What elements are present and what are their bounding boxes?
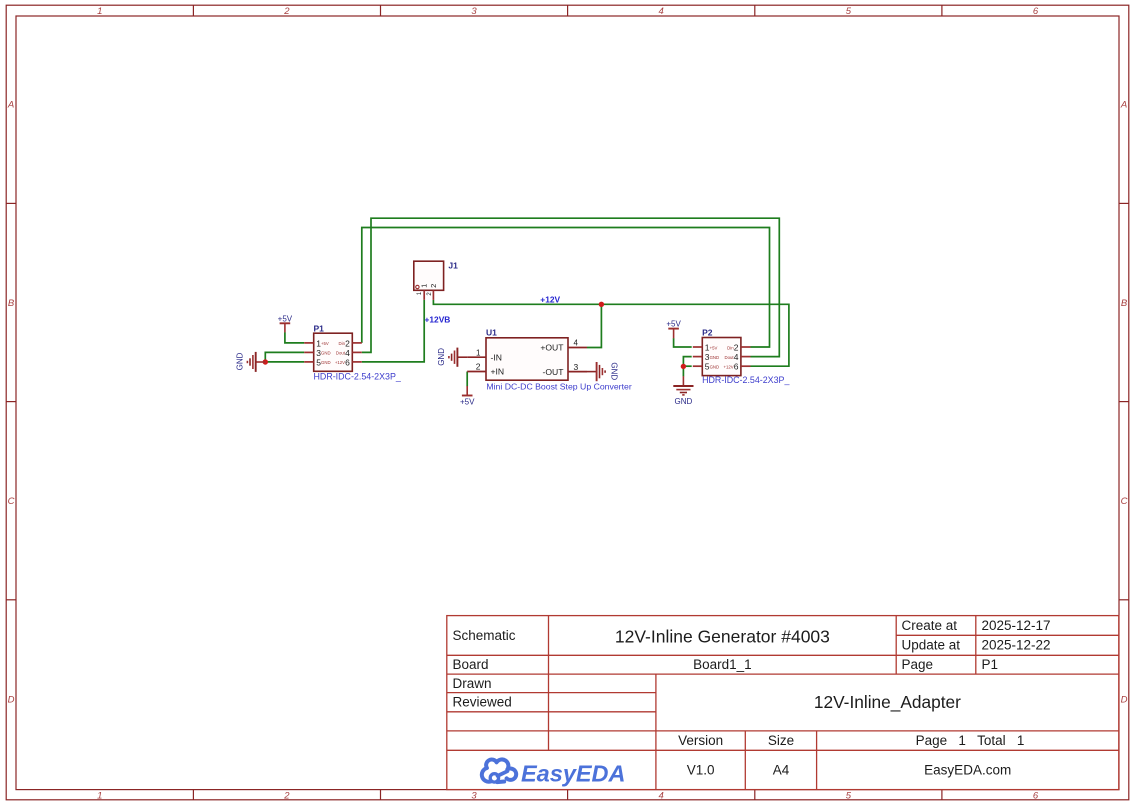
P2 pin 4 xyxy=(725,352,751,362)
svg-text:+5V: +5V xyxy=(460,397,475,406)
svg-text:B: B xyxy=(8,298,15,309)
P1 pin 1 xyxy=(304,338,329,348)
wire P1 pin3 to ground node xyxy=(265,352,304,362)
wire net Din: P1 pin2 to P2 pin2 xyxy=(362,228,770,348)
wire U1 pin2 to +5V xyxy=(466,372,468,387)
svg-text:HDR-IDC-2.54-2X3P_: HDR-IDC-2.54-2X3P_ xyxy=(702,375,790,385)
P1 pin 6 xyxy=(335,357,362,367)
svg-text:Board: Board xyxy=(453,657,489,672)
connector P1 xyxy=(304,323,402,381)
svg-text:4: 4 xyxy=(659,6,664,17)
svg-text:Size: Size xyxy=(768,733,794,748)
TITLE BLOCK xyxy=(447,616,1119,790)
svg-text:GND: GND xyxy=(321,360,331,365)
svg-text:Schematic: Schematic xyxy=(453,628,516,643)
svg-text:Reviewed: Reviewed xyxy=(453,695,512,710)
svg-text:EasyEDA.com: EasyEDA.com xyxy=(924,762,1011,777)
svg-text:+12V: +12V xyxy=(540,295,560,305)
svg-text:6: 6 xyxy=(1033,791,1039,802)
svg-text:2: 2 xyxy=(283,6,290,17)
svg-text:12V-Inline_Adapter: 12V-Inline_Adapter xyxy=(814,692,961,712)
wire P1 pin1 to +5V xyxy=(285,332,304,343)
svg-text:D: D xyxy=(8,694,15,705)
svg-text:4: 4 xyxy=(345,348,350,358)
svg-text:2: 2 xyxy=(345,338,350,348)
J1 pin-1 marker circle xyxy=(416,285,419,288)
svg-text:GND: GND xyxy=(236,352,245,370)
module U1 xyxy=(467,328,632,392)
svg-text:Page 1 Total 1: Page 1 Total 1 xyxy=(916,733,1025,748)
svg-text:+12V: +12V xyxy=(335,360,345,365)
svg-text:A: A xyxy=(7,100,14,111)
svg-text:U1: U1 xyxy=(486,328,497,338)
P2 pin 3 xyxy=(693,352,719,362)
wire P1 pin5 to ground node xyxy=(265,361,304,363)
P2 pin 1 xyxy=(693,343,718,353)
svg-text:+12VB: +12VB xyxy=(425,314,451,324)
svg-text:B: B xyxy=(1121,298,1128,309)
svg-text:Create at: Create at xyxy=(902,618,958,633)
svg-text:1: 1 xyxy=(97,6,102,17)
svg-text:Update at: Update at xyxy=(902,638,961,653)
svg-text:Dout: Dout xyxy=(336,351,346,356)
svg-text:C: C xyxy=(8,496,15,507)
power flag +5V at P1 xyxy=(278,315,293,333)
P2 pin 6 xyxy=(723,362,750,372)
svg-text:V1.0: V1.0 xyxy=(687,762,715,777)
svg-text:3: 3 xyxy=(574,362,579,372)
svg-text:2: 2 xyxy=(283,791,290,802)
svg-text:+5V: +5V xyxy=(278,315,293,324)
svg-text:J1: J1 xyxy=(448,260,458,270)
wire net +12VB: P1 pin6 to J1 pin1 xyxy=(362,300,424,362)
P2 pin 2 xyxy=(727,343,750,353)
wire P2 pin5 to ground node xyxy=(683,365,691,367)
wire net +12V: J1 pin2 to P2 pin6 xyxy=(433,300,789,366)
svg-text:Page: Page xyxy=(902,657,934,672)
svg-text:D: D xyxy=(1121,694,1128,705)
junction at P1 ground node xyxy=(263,359,268,364)
svg-text:-OUT: -OUT xyxy=(542,367,564,377)
svg-text:3: 3 xyxy=(471,6,477,17)
svg-text:4: 4 xyxy=(659,791,664,802)
ground GND at U1 pin3 (pointing right) xyxy=(587,362,618,381)
P1 pin 5 xyxy=(304,357,330,367)
wire P2 pin3 to ground node xyxy=(683,357,691,367)
svg-text:P2: P2 xyxy=(702,328,713,338)
svg-text:Board1_1: Board1_1 xyxy=(693,657,752,672)
power flag +5V at U1 (inverted) xyxy=(460,386,475,406)
svg-text:1: 1 xyxy=(476,348,481,357)
ground GND at P2 (pointing down) xyxy=(673,376,693,406)
connector P2 xyxy=(693,328,791,386)
P2 pin 5 xyxy=(693,362,719,372)
J1 pin 1 xyxy=(417,284,428,300)
svg-text:HDR-IDC-2.54-2X3P_: HDR-IDC-2.54-2X3P_ xyxy=(314,372,402,382)
svg-text:GND: GND xyxy=(321,351,331,356)
svg-text:+5V: +5V xyxy=(710,345,718,350)
svg-text:+5V: +5V xyxy=(321,341,329,346)
svg-text:4: 4 xyxy=(734,352,739,362)
svg-text:Dout: Dout xyxy=(725,355,735,360)
ground GND at U1 pin1 (pointing left) xyxy=(437,348,467,367)
svg-text:4: 4 xyxy=(574,339,579,348)
ground GND at P1 (pointing left) xyxy=(236,352,266,372)
svg-text:A: A xyxy=(1120,100,1127,111)
svg-text:2: 2 xyxy=(734,343,739,353)
svg-text:GND: GND xyxy=(710,355,720,360)
junction at +12V node xyxy=(599,302,604,307)
svg-text:A4: A4 xyxy=(773,762,790,777)
svg-text:Din: Din xyxy=(727,345,734,350)
svg-text:EasyEDA: EasyEDA xyxy=(521,761,626,787)
CIRCUIT xyxy=(236,218,791,406)
EasyEDA logo xyxy=(482,759,626,786)
U1 pin 4 +OUT xyxy=(540,339,587,353)
svg-text:6: 6 xyxy=(345,357,350,367)
U1 pin 1 -IN xyxy=(467,348,502,362)
svg-text:5: 5 xyxy=(846,791,852,802)
svg-text:2: 2 xyxy=(476,362,481,372)
svg-text:6: 6 xyxy=(1033,6,1039,17)
svg-text:P1: P1 xyxy=(982,657,999,672)
svg-text:GND: GND xyxy=(675,397,693,406)
svg-text:Din: Din xyxy=(339,341,346,346)
svg-text:12V-Inline Generator #4003: 12V-Inline Generator #4003 xyxy=(615,627,830,647)
U1 pin 3 -OUT xyxy=(542,362,587,377)
svg-text:Drawn: Drawn xyxy=(453,676,492,691)
svg-text:1: 1 xyxy=(97,791,102,802)
svg-text:2025-12-17: 2025-12-17 xyxy=(982,618,1051,633)
P1 pin 2 xyxy=(339,338,362,348)
svg-text:2: 2 xyxy=(429,284,438,288)
P1 pin 4 xyxy=(336,348,362,358)
svg-text:2025-12-22: 2025-12-22 xyxy=(982,638,1051,653)
svg-text:1: 1 xyxy=(420,284,429,288)
P1 pin 3 xyxy=(304,348,330,358)
svg-text:C: C xyxy=(1121,496,1128,507)
svg-text:GND: GND xyxy=(710,365,720,370)
connector J1 xyxy=(414,260,458,300)
svg-text:+5V: +5V xyxy=(666,320,681,329)
svg-text:+12V: +12V xyxy=(723,365,733,370)
wire P2 pin1 to +5V xyxy=(674,338,692,347)
svg-text:GND: GND xyxy=(437,348,446,366)
wire net +12V branch to U1 pin4 xyxy=(587,304,601,347)
svg-text:+IN: +IN xyxy=(491,367,505,377)
J1 pin 2 xyxy=(427,284,438,300)
wire net Dout: P1 pin4 to P2 pin4 xyxy=(362,218,780,356)
wire P2 ground node down xyxy=(682,366,684,376)
svg-text:+OUT: +OUT xyxy=(540,343,564,353)
svg-text:6: 6 xyxy=(734,362,739,372)
svg-text:GND: GND xyxy=(609,362,618,380)
svg-text:Version: Version xyxy=(678,733,723,748)
svg-text:Mini DC-DC Boost Step Up Conve: Mini DC-DC Boost Step Up Converter xyxy=(486,382,631,392)
junction at P2 ground node xyxy=(681,364,686,369)
U1 pin 2 +IN xyxy=(467,362,504,377)
svg-text:P1: P1 xyxy=(314,323,325,333)
svg-text:3: 3 xyxy=(471,791,477,802)
power flag +5V at P2 xyxy=(666,320,681,339)
svg-text:-IN: -IN xyxy=(491,352,502,362)
svg-text:5: 5 xyxy=(846,6,852,17)
